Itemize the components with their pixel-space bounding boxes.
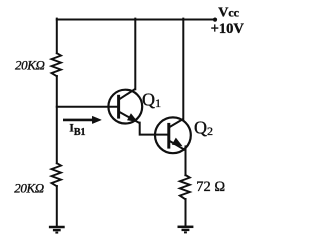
wire Q1 collector vertical bbox=[134, 19, 136, 90]
node Vcc terminal dot bbox=[213, 18, 217, 22]
ground (left) bbox=[49, 227, 65, 233]
svg-text:20KΩ: 20KΩ bbox=[15, 58, 44, 73]
wire Q1 base lead bbox=[57, 106, 119, 108]
wire Q2 emitter vertical bbox=[185, 146, 187, 175]
resistor R1 20KΩ bbox=[52, 53, 62, 76]
svg-text:Q1: Q1 bbox=[142, 89, 161, 110]
wire left rail middle bbox=[56, 76, 58, 163]
svg-text:20KΩ: 20KΩ bbox=[14, 181, 43, 196]
svg-text:72 Ω: 72 Ω bbox=[196, 179, 225, 195]
transistor Q2 bbox=[155, 117, 191, 153]
wire below R3 to ground bbox=[185, 199, 187, 226]
svg-text:IB1: IB1 bbox=[69, 123, 85, 139]
wire Q1 emitter to Q2 base bbox=[140, 123, 169, 135]
resistor R2 20KΩ bbox=[52, 163, 62, 186]
wire left rail lower bbox=[56, 186, 58, 226]
transistor Q1 bbox=[108, 89, 142, 124]
svg-text:+10V: +10V bbox=[211, 21, 245, 37]
wire Q2 collector vertical bbox=[182, 19, 184, 120]
wire top supply rail bbox=[57, 19, 215, 21]
current arrow IB1 bbox=[63, 116, 101, 123]
resistor R3 72Ω bbox=[180, 175, 190, 199]
wire left rail upper bbox=[56, 19, 58, 54]
svg-text:Q2: Q2 bbox=[194, 117, 213, 138]
svg-text:Vcc: Vcc bbox=[218, 6, 239, 21]
ground (right) bbox=[178, 227, 194, 233]
